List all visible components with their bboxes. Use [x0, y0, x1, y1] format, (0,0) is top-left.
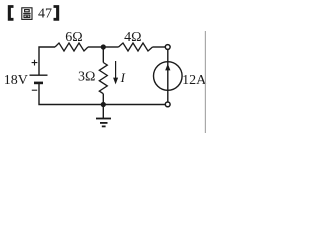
current source I1 circle — [154, 62, 183, 91]
current source arrow up — [165, 64, 170, 71]
wire 4Ω to top-right terminal — [153, 46, 166, 48]
wire 6Ω to node A — [88, 46, 103, 48]
resistor R2 4Ω zigzag — [119, 43, 153, 51]
ground bar 1 — [96, 118, 111, 120]
svg-text:4Ω: 4Ω — [124, 30, 141, 45]
figure title glyph 圖 — [22, 8, 32, 20]
wire node A to 4Ω — [103, 46, 118, 48]
current arrow I — [115, 61, 117, 79]
wire battery to bottom-left corner — [39, 83, 103, 105]
resistor R1 6Ω zigzag — [55, 43, 88, 51]
battery V1 minus sign — [32, 89, 37, 91]
wire 3Ω to bottom node — [102, 94, 104, 105]
ground stem — [102, 105, 104, 119]
top-right terminal open circle — [165, 45, 170, 50]
wire bottom node to bottom-right terminal — [103, 104, 165, 106]
ground bar 2 — [100, 122, 108, 124]
resistor R3 3Ω zigzag — [99, 63, 107, 94]
svg-text:3Ω: 3Ω — [78, 69, 95, 84]
svg-text:47: 47 — [38, 7, 52, 22]
svg-text:I: I — [120, 70, 126, 85]
page rule (gray vertical line) — [204, 31, 206, 133]
wire top-left corner and lead — [39, 47, 55, 75]
bottom junction dot — [101, 102, 106, 107]
wire node A down — [102, 47, 104, 63]
figure title bracket right 】 — [54, 5, 60, 21]
battery V1 top plate — [30, 74, 48, 76]
svg-text:18V: 18V — [4, 73, 28, 88]
node A junction dot — [101, 44, 106, 49]
battery V1 plus sign — [32, 60, 38, 66]
svg-text:12A: 12A — [182, 73, 207, 88]
wire through current source — [167, 47, 169, 105]
ground bar 3 — [102, 125, 106, 127]
battery V1 bottom plate — [34, 82, 43, 85]
svg-text:6Ω: 6Ω — [65, 30, 82, 45]
figure title bracket left 【 — [8, 5, 14, 21]
bottom-right terminal open circle — [165, 102, 170, 107]
